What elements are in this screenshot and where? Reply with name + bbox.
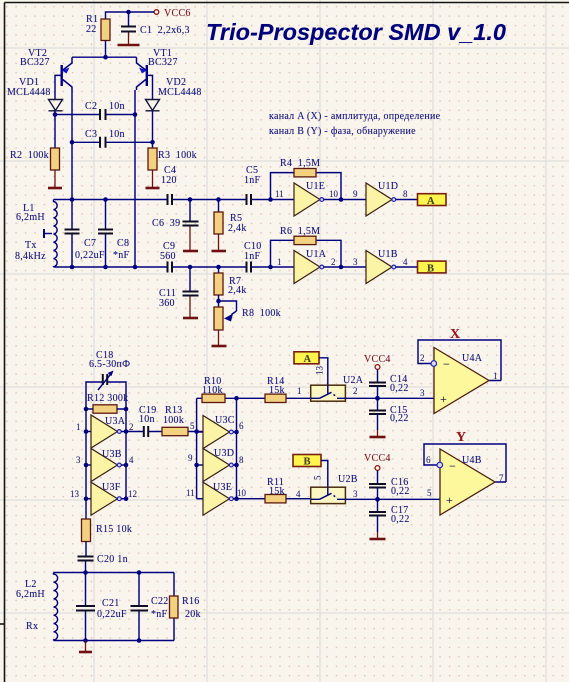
inverter U3D: [197, 448, 237, 482]
junction rail/R5: [216, 197, 221, 202]
svg-text:7: 7: [499, 473, 504, 483]
wire emitter rail: [72, 56, 137, 58]
ground below C11: [183, 297, 198, 319]
svg-text:2: 2: [129, 422, 134, 432]
resistor R7: [214, 267, 247, 296]
svg-text:5: 5: [427, 488, 432, 498]
svg-text:0,22: 0,22: [390, 413, 409, 424]
variable capacitor C18: [89, 350, 130, 390]
ground below R3: [146, 170, 160, 188]
wire VT2 base to VD1: [55, 75, 61, 99]
svg-text:1: 1: [277, 257, 282, 267]
svg-text:1: 1: [297, 386, 302, 396]
svg-text:R4 1,5M: R4 1,5M: [280, 158, 320, 169]
junction input bus U3B: [84, 463, 89, 468]
svg-text:VCC4: VCC4: [364, 354, 391, 365]
svg-text:5: 5: [313, 475, 323, 480]
capacitor C8: [98, 200, 130, 268]
svg-text:−: −: [443, 357, 450, 371]
wire U3 input bus: [85, 409, 87, 519]
wire C2 row: [55, 114, 135, 116]
capacitor C20: [78, 542, 128, 573]
svg-text:6.5-30пФ: 6.5-30пФ: [89, 359, 130, 370]
svg-text:Trio-Prospector SMD v_1.0: Trio-Prospector SMD v_1.0: [206, 19, 506, 45]
capacitor C17: [369, 499, 410, 532]
junction U1A out/R6: [339, 265, 344, 270]
wire VCC6 top rail: [106, 12, 155, 19]
svg-text:6: 6: [426, 455, 431, 465]
ground below R2: [48, 170, 62, 188]
svg-text:110k: 110k: [202, 385, 223, 396]
svg-text:A: A: [427, 196, 435, 207]
resistor R13: [162, 405, 188, 436]
svg-text:−: −: [449, 459, 456, 473]
svg-text:U3B: U3B: [102, 449, 122, 460]
resistor R10: [197, 376, 237, 403]
junction VCC6/C1: [126, 10, 131, 15]
port B to U2B control: [293, 455, 321, 468]
junction output bus top R10/R14: [234, 396, 239, 401]
inductor L1: [16, 200, 57, 268]
wire port A to U2A: [319, 358, 328, 385]
svg-text:4: 4: [296, 489, 301, 499]
svg-text:1nF: 1nF: [244, 175, 261, 186]
analog switch U2B: [311, 474, 358, 504]
svg-text:15k: 15k: [269, 486, 285, 497]
junction VD2/C3: [150, 140, 155, 145]
wire bottom tank rail: [54, 266, 295, 268]
junction bottom/R6 feedback: [268, 265, 273, 270]
inverter U3C: [197, 415, 237, 449]
svg-text:C20 1n: C20 1n: [97, 554, 128, 565]
junction R7/R8 wiper: [216, 299, 221, 304]
junction R13/U3C input bus: [194, 429, 199, 434]
junction bottom rail/C21: [83, 638, 88, 643]
svg-text:U3C: U3C: [215, 415, 235, 426]
wire U3C output bus: [236, 398, 238, 498]
svg-text:8: 8: [239, 455, 244, 465]
capacitor C3: [85, 129, 125, 148]
svg-text:C21: C21: [102, 598, 120, 609]
svg-text:1: 1: [76, 422, 81, 432]
svg-text:22: 22: [86, 24, 97, 35]
wire U1A feedback loop: [271, 240, 342, 267]
junction top rail/C22: [137, 570, 142, 575]
svg-text:*nF: *nF: [113, 250, 130, 261]
capacitor C7: [65, 200, 105, 268]
wire C18 feedback loop: [86, 382, 126, 409]
junction input bus U3D: [194, 463, 199, 468]
svg-text:BC327: BC327: [20, 57, 50, 68]
wire U1D out to port A: [396, 199, 417, 201]
inverter U1E: [294, 181, 325, 216]
svg-text:3: 3: [353, 489, 358, 499]
wire VT1 base to VD2: [148, 75, 153, 99]
wire VT1 collector down: [134, 90, 136, 267]
ground below C15: [370, 430, 386, 437]
junction rail/C6: [188, 197, 193, 202]
svg-text:0,22uF: 0,22uF: [97, 609, 127, 620]
wire U1B out to port B: [396, 266, 417, 268]
svg-text:6,2mH: 6,2mH: [16, 212, 45, 223]
svg-text:VCC4: VCC4: [364, 453, 391, 464]
capacitor C5: [244, 165, 261, 205]
junction rail/C8: [103, 197, 108, 202]
svg-text:10n: 10n: [139, 414, 155, 425]
svg-text:100k: 100k: [163, 415, 184, 426]
capacitor C15: [369, 398, 409, 430]
svg-text:2: 2: [331, 257, 336, 267]
capacitor C22: [131, 573, 169, 641]
svg-text:U1D: U1D: [378, 181, 398, 192]
svg-text:U1E: U1E: [306, 181, 325, 192]
svg-text:R6 1,5M: R6 1,5M: [280, 226, 320, 237]
svg-text:U3A: U3A: [105, 416, 126, 427]
svg-text:3: 3: [76, 455, 81, 465]
capacitor C19: [139, 405, 157, 437]
svg-text:R16: R16: [182, 596, 200, 607]
junction bottom/C8: [103, 265, 108, 270]
junction bottom/R7: [216, 265, 221, 270]
svg-text:U4A: U4A: [462, 353, 483, 364]
svg-text:+: +: [440, 392, 447, 406]
ground below C6: [183, 227, 198, 252]
capacitor C21: [76, 573, 127, 641]
svg-text:0,22: 0,22: [390, 383, 409, 394]
svg-text:U4B: U4B: [462, 455, 482, 466]
junction VD1/C2: [53, 112, 58, 117]
svg-text:MCL4448: MCL4448: [7, 87, 51, 98]
svg-text:6: 6: [239, 421, 244, 431]
svg-text:B: B: [304, 457, 311, 468]
svg-text:R12 300k: R12 300k: [87, 393, 128, 404]
ground below L2 rail: [79, 641, 92, 653]
wire U3C input bus: [196, 398, 198, 498]
resistor R11: [237, 477, 311, 503]
junction C16/C17 node B: [375, 497, 380, 502]
svg-text:U3E: U3E: [213, 482, 232, 493]
power port VCC4 (X): [364, 354, 391, 369]
junction output bus U3A: [124, 429, 129, 434]
svg-text:3: 3: [353, 257, 358, 267]
capacitor C14: [369, 369, 409, 398]
wire VD2 to R3: [152, 111, 154, 148]
junction VT2 collector/C3: [70, 140, 75, 145]
svg-text:канал A (X) - амплитуда, опред: канал A (X) - амплитуда, определение: [269, 111, 441, 122]
capacitor C16: [369, 470, 410, 499]
svg-text:10: 10: [237, 488, 247, 498]
svg-text:11: 11: [186, 488, 195, 498]
svg-text:U3F: U3F: [102, 482, 121, 493]
svg-text:Tx: Tx: [25, 240, 37, 251]
svg-text:U3D: U3D: [214, 448, 234, 459]
analog switch U2A: [311, 375, 364, 401]
junction bottom/C11: [188, 265, 193, 270]
svg-text:BC327: BC327: [148, 57, 178, 68]
junction U1E out/R4: [339, 197, 344, 202]
svg-text:B: B: [427, 264, 434, 275]
wire port B to U2B: [321, 461, 328, 488]
svg-text:13: 13: [70, 489, 80, 499]
junction output bus U3B: [124, 463, 129, 468]
ground below R8: [212, 330, 227, 346]
svg-text:канал B (Y) - фаза, обнаружени: канал B (Y) - фаза, обнаружение: [269, 126, 416, 137]
wire top tank rail: [54, 199, 295, 201]
svg-text:11: 11: [275, 189, 284, 199]
inverter U3B: [86, 449, 126, 482]
resistor R12: [86, 393, 128, 413]
svg-text:Rx: Rx: [26, 621, 38, 632]
junction output bus U3D: [234, 463, 239, 468]
wire L2 top rail: [54, 572, 175, 574]
junction bottom rail/C22: [137, 638, 142, 643]
svg-text:Y: Y: [456, 430, 466, 445]
junction input bus U3F: [84, 496, 89, 501]
svg-text:120: 120: [161, 175, 177, 186]
svg-text:10: 10: [329, 189, 339, 199]
svg-text:2,4k: 2,4k: [228, 223, 247, 234]
svg-text:R15 10k: R15 10k: [96, 524, 132, 535]
svg-text:U1B: U1B: [378, 249, 398, 260]
junction R12 left: [84, 407, 89, 412]
power port VCC6: [154, 8, 190, 19]
svg-text:9: 9: [353, 189, 358, 199]
resistor R16: [170, 573, 201, 641]
svg-text:9: 9: [188, 453, 193, 463]
junction emitter rail / R1: [103, 55, 108, 60]
capacitor C10: [244, 241, 262, 273]
ground below C17: [370, 532, 386, 539]
inverter U3F: [86, 482, 126, 515]
svg-text:360: 360: [159, 298, 175, 309]
resistor R15: [82, 519, 133, 542]
capacitor C11: [159, 267, 199, 309]
svg-text:A: A: [304, 354, 312, 365]
svg-text:10n: 10n: [109, 129, 125, 140]
svg-text:2,4k: 2,4k: [228, 285, 247, 296]
svg-text:MCL4448: MCL4448: [158, 87, 202, 98]
junction output bus U3E: [234, 496, 239, 501]
junction R12 right: [124, 407, 129, 412]
potentiometer R8: [214, 301, 281, 330]
svg-text:4: 4: [403, 257, 408, 267]
wire U2B out to U4B: [345, 498, 440, 500]
svg-text:5: 5: [190, 421, 195, 431]
svg-text:U1A: U1A: [306, 249, 327, 260]
resistor R2: [10, 148, 60, 170]
resistor R14: [237, 376, 312, 403]
transistor VT1: [137, 48, 178, 90]
inverter U3A: [86, 415, 126, 448]
svg-text:3: 3: [420, 388, 425, 398]
inverter U1A: [294, 249, 327, 284]
junction rail/R4 feedback: [268, 197, 273, 202]
svg-text:*nF: *nF: [151, 609, 168, 620]
junction top rail/C21: [83, 570, 88, 575]
Tx tap of L1: [15, 229, 52, 262]
capacitor C9: [160, 241, 176, 273]
wire VD1 to R2: [54, 111, 56, 148]
svg-text:C22: C22: [151, 596, 169, 607]
resistor R3: [148, 148, 197, 170]
svg-text:+: +: [446, 493, 453, 507]
inverter U1B: [366, 249, 398, 284]
svg-text:C7: C7: [84, 238, 96, 249]
inverter U3E: [197, 482, 237, 515]
ground below C1: [118, 33, 140, 46]
wire U1E feedback loop: [271, 173, 342, 200]
wire C19 row: [126, 431, 203, 433]
svg-text:13: 13: [315, 366, 325, 376]
svg-text:0,22uF: 0,22uF: [75, 250, 105, 261]
transistor VT2: [20, 48, 72, 90]
wire U1A out to U1B: [324, 266, 366, 268]
svg-text:C6 39: C6 39: [152, 218, 180, 229]
wire U1E out to U1D: [324, 199, 366, 201]
capacitor C4: [161, 165, 177, 205]
junction output bus U3C: [234, 430, 239, 435]
svg-text:4: 4: [129, 455, 134, 465]
svg-text:8: 8: [403, 189, 408, 199]
svg-text:C3: C3: [85, 129, 97, 140]
svg-text:C8: C8: [117, 238, 129, 249]
wire U2A out to U4A: [345, 397, 434, 399]
svg-text:R2 100k: R2 100k: [10, 150, 49, 161]
svg-text:R8 100k: R8 100k: [242, 308, 281, 319]
junction C2/VT1 collector: [133, 112, 138, 117]
svg-text:0,22: 0,22: [391, 486, 410, 497]
junction bottom/C7: [70, 265, 75, 270]
svg-text:C1 2,2x6,3: C1 2,2x6,3: [140, 25, 190, 36]
svg-text:15k: 15k: [269, 385, 285, 396]
port A: [418, 194, 447, 207]
svg-text:0,22: 0,22: [391, 514, 410, 525]
inductor L2: [16, 573, 58, 641]
capacitor C1: [121, 14, 190, 36]
resistor R1: [86, 14, 110, 41]
svg-text:8,4kHz: 8,4kHz: [15, 251, 46, 262]
svg-text:1nF: 1nF: [244, 251, 261, 262]
capacitor C6: [152, 200, 199, 230]
svg-text:2: 2: [353, 386, 358, 396]
svg-text:12: 12: [128, 489, 137, 499]
svg-text:C2: C2: [85, 101, 97, 112]
junction input bus U3A: [84, 429, 89, 434]
diode VD2: [146, 77, 202, 111]
svg-text:VCC6: VCC6: [164, 8, 191, 19]
wire R7 to R8: [218, 295, 220, 307]
junction output bus U3F: [124, 496, 129, 501]
svg-text:6,2mH: 6,2mH: [16, 589, 45, 600]
wire R1 to emitter rail: [105, 41, 107, 58]
wire U3 output bus: [125, 409, 127, 499]
svg-text:U2B: U2B: [338, 474, 358, 485]
ground below R5: [212, 234, 227, 251]
svg-text:10n: 10n: [109, 101, 125, 112]
wire VT2 collector down: [71, 90, 73, 200]
resistor R4: [280, 158, 320, 177]
port A to U2A control: [294, 352, 319, 365]
capacitor C2: [85, 101, 125, 120]
resistor R5: [214, 200, 247, 235]
wire C3 row: [72, 141, 153, 143]
diode VD1: [7, 77, 63, 111]
svg-text:R3 100k: R3 100k: [158, 150, 197, 161]
inverter U1D: [366, 181, 398, 216]
junction C14/C15 node A: [375, 396, 380, 401]
svg-text:20k: 20k: [185, 609, 201, 620]
port B: [418, 261, 447, 274]
op-amp U4A: [418, 340, 501, 414]
wire L2 bottom rail: [54, 640, 175, 642]
svg-text:1: 1: [493, 371, 498, 381]
svg-text:2: 2: [420, 353, 425, 363]
junction rail/C7: [70, 197, 75, 202]
resistor R6: [280, 226, 320, 245]
svg-text:560: 560: [160, 251, 176, 262]
power port VCC4 (Y): [364, 453, 391, 470]
junction bottom/VT1 collector: [133, 265, 138, 270]
svg-text:U2A: U2A: [343, 375, 364, 386]
op-amp U4B: [424, 444, 506, 515]
